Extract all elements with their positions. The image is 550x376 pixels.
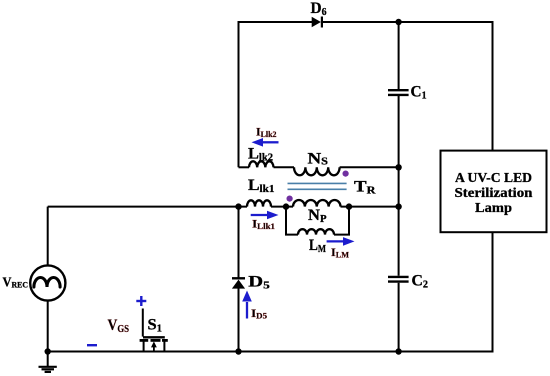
current arrow ILlk1	[251, 211, 279, 220]
ground stub	[47, 352, 49, 367]
inductor Llk1	[247, 200, 271, 206]
current arrow ILlk2	[252, 138, 279, 147]
svg-text:D5: D5	[248, 274, 269, 292]
svg-text:Llk1: Llk1	[248, 177, 275, 195]
wire Lm branch left vertical and bottom left	[286, 207, 298, 235]
svg-text:NP: NP	[308, 207, 327, 225]
svg-text:ILlk1: ILlk1	[252, 217, 275, 232]
node secondary right junction	[395, 164, 401, 170]
wire D5 branch lower	[238, 289, 240, 352]
minus sign	[87, 344, 97, 346]
polarity dot secondary	[343, 171, 349, 177]
svg-text:S1: S1	[148, 317, 163, 335]
svg-text:VREC: VREC	[3, 275, 29, 290]
wire main vertical below C2	[398, 283, 400, 352]
svg-text:VGS: VGS	[108, 317, 130, 335]
svg-text:C1: C1	[411, 84, 427, 102]
node Np left junction	[283, 203, 289, 209]
wire primary row from Vrec corner to Llk1	[48, 206, 247, 208]
wire bottom rail and right vertical to lamp box bottom	[48, 232, 493, 351]
svg-text:NS: NS	[308, 150, 329, 167]
wire D6 cathode to top-right corner down to lamp box top	[322, 22, 493, 151]
svg-text:Llk2: Llk2	[248, 146, 273, 164]
winding Ns	[294, 167, 340, 175]
wire primary row Llk1 to Np	[271, 206, 293, 208]
capacitor C2	[388, 277, 409, 282]
svg-text:LM: LM	[309, 237, 326, 255]
wire main vertical above C1	[398, 22, 400, 89]
wire secondary row between Llk2 and Ns	[274, 166, 295, 168]
wire secondary row Ns to main vertical	[340, 166, 399, 168]
wire top-left vertical and top run to D6 anode	[239, 22, 313, 167]
source VREC	[30, 265, 65, 300]
inductor Llk2	[249, 161, 274, 167]
wire Vrec bottom lead	[47, 300, 49, 351]
node ground junction	[45, 348, 51, 354]
svg-text:TR: TR	[354, 179, 376, 197]
capacitor C1	[388, 90, 409, 95]
diode D6	[312, 17, 322, 28]
diode D5	[232, 278, 245, 288]
lamp box text	[455, 171, 533, 216]
plus sign	[136, 296, 146, 306]
node primary left junction	[235, 203, 241, 209]
transistor S1 arrow	[151, 341, 157, 347]
node top junction	[395, 19, 401, 25]
svg-text:D6: D6	[311, 0, 327, 18]
wire main vertical C1 to C2	[398, 96, 400, 276]
svg-text:C2: C2	[412, 273, 429, 291]
svg-text:ID5: ID5	[251, 306, 267, 321]
node Np right junction	[346, 203, 352, 209]
wire Lm branch bottom right and right vertical	[334, 207, 349, 235]
wire secondary row left segment	[239, 166, 250, 168]
node C2 bottom junction	[395, 348, 401, 354]
transformer core TR	[288, 183, 347, 189]
polarity dot primary	[287, 196, 293, 202]
wire Vrec top lead	[47, 207, 49, 266]
wire D5 branch upper	[238, 207, 240, 278]
current arrow ILM	[327, 237, 355, 246]
svg-text:ILM: ILM	[331, 245, 349, 259]
current arrow ID5	[242, 291, 252, 319]
transistor S1	[140, 309, 168, 352]
svg-text:A UV-C LED: A UV-C LED	[455, 171, 532, 186]
node primary right junction	[395, 203, 401, 209]
wire primary row Np to main vertical	[341, 206, 399, 208]
inductor Lm	[298, 229, 334, 234]
ground	[39, 367, 57, 372]
svg-text:Sterilization: Sterilization	[455, 186, 533, 201]
svg-text:ILlk2: ILlk2	[256, 124, 277, 139]
winding Np	[293, 200, 341, 207]
svg-text:Lamp: Lamp	[475, 201, 512, 216]
node D5 bottom junction	[235, 348, 241, 354]
lamp box	[441, 151, 547, 233]
